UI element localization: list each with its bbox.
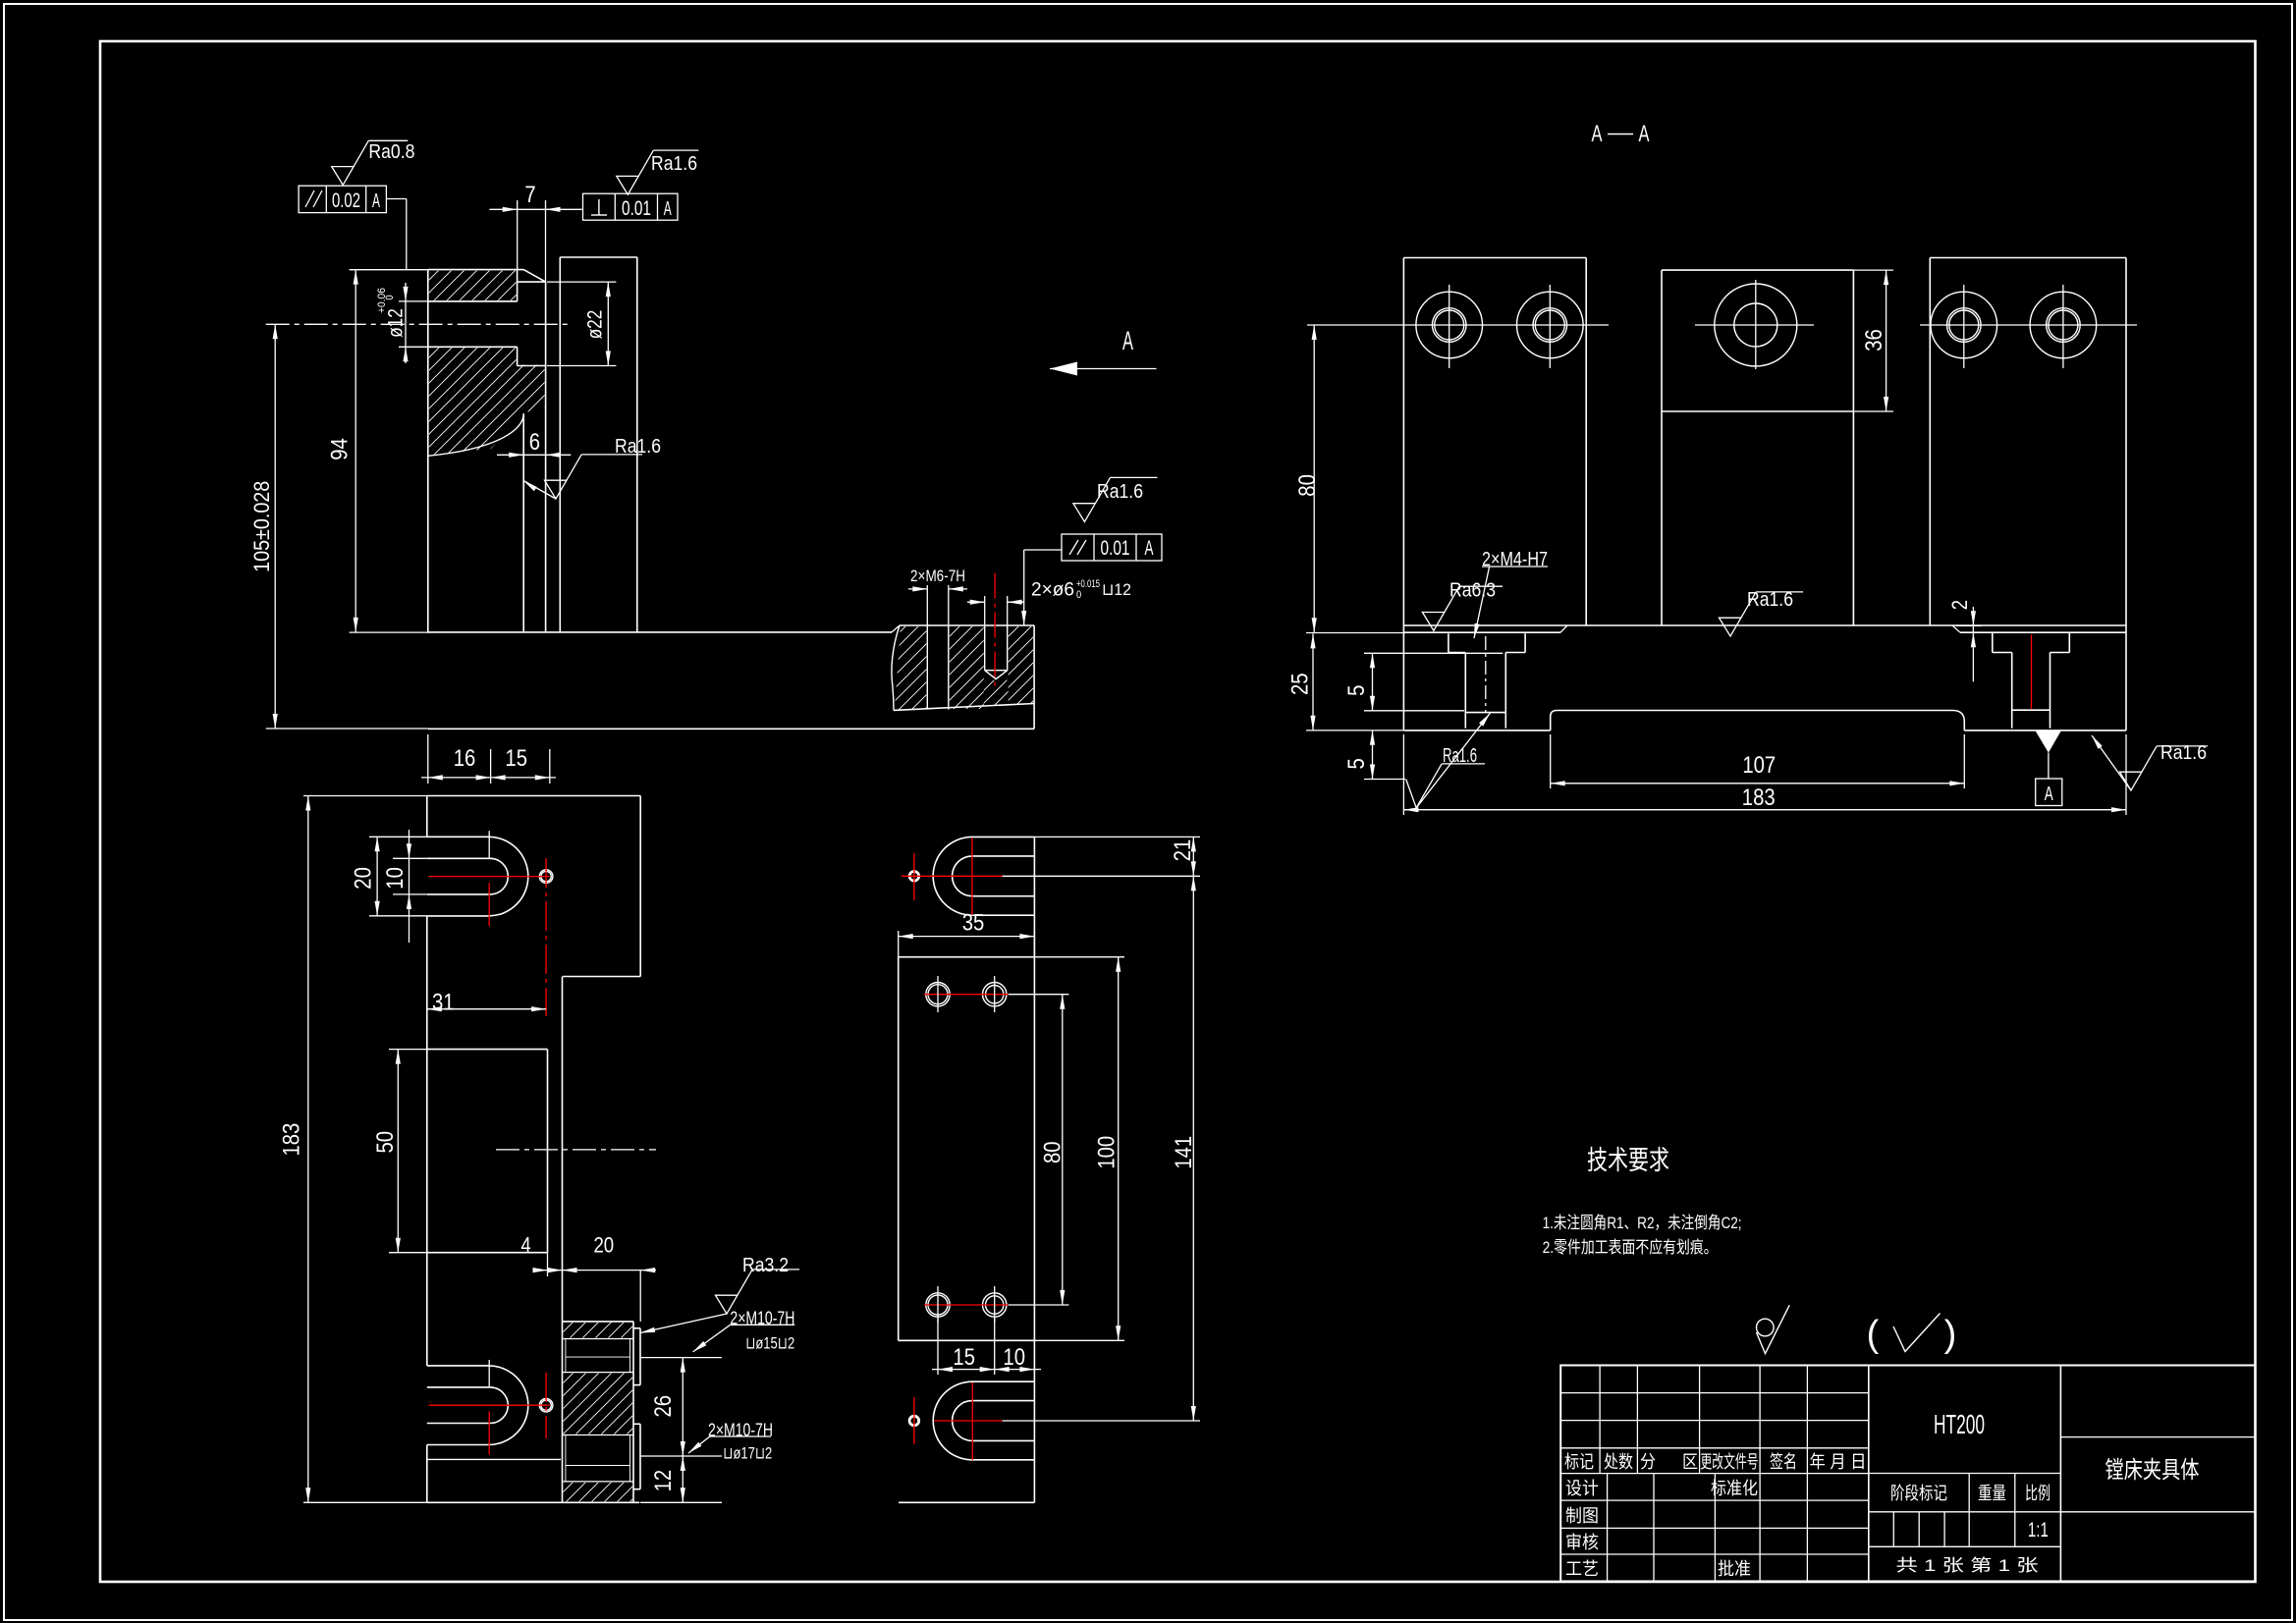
svg-text:80: 80 bbox=[1294, 474, 1321, 497]
svg-text:(: ( bbox=[1867, 1314, 1880, 1355]
svg-text:0.02: 0.02 bbox=[332, 189, 360, 212]
A-A left upright block bbox=[1403, 258, 1586, 730]
dimension 5 upper (A-A) bbox=[1343, 653, 1503, 711]
dimension 4 and 20 (rib) bbox=[520, 1233, 656, 1322]
svg-text:80: 80 bbox=[1040, 1141, 1066, 1163]
phi6 pin hole (section) bbox=[984, 625, 986, 671]
slot lower-left bbox=[427, 1366, 528, 1445]
svg-text:7: 7 bbox=[524, 182, 535, 208]
dimension 6 bbox=[497, 429, 571, 458]
svg-text:Ra1.6: Ra1.6 bbox=[2160, 742, 2207, 764]
svg-text:12: 12 bbox=[650, 1470, 677, 1492]
dimension 12 bbox=[640, 1456, 722, 1502]
svg-text:Ra3.2: Ra3.2 bbox=[742, 1255, 789, 1276]
svg-text:ø22: ø22 bbox=[584, 310, 607, 340]
svg-text:HT200: HT200 bbox=[1934, 1409, 1985, 1439]
svg-text:重量: 重量 bbox=[1978, 1484, 2006, 1503]
svg-text:50: 50 bbox=[372, 1131, 399, 1154]
surface finish Ra6.3 (A-A) bbox=[1422, 613, 1444, 631]
dimension 35 bbox=[899, 910, 1035, 957]
slot upper-left bbox=[427, 837, 528, 916]
A-A base bottom and recess bbox=[1403, 711, 2126, 730]
label 2xM10-7H cb15 bbox=[693, 1309, 795, 1353]
red centerlines slots (side) bbox=[902, 838, 1003, 1460]
svg-text:36: 36 bbox=[1861, 329, 1887, 352]
hatch: upper band bbox=[395, 269, 555, 301]
A-A center block bbox=[1662, 270, 1853, 625]
dimension 105±0.028 bbox=[249, 324, 428, 729]
A-A base pad line bbox=[1403, 624, 2126, 626]
svg-text:Ra1.6: Ra1.6 bbox=[615, 436, 661, 458]
svg-text:批准: 批准 bbox=[1718, 1559, 1751, 1579]
svg-text:区: 区 bbox=[1682, 1452, 1698, 1472]
svg-text:工艺: 工艺 bbox=[1565, 1559, 1599, 1579]
A-A left M4 counterbore bbox=[1449, 633, 1525, 729]
svg-text:镗床夹具体: 镗床夹具体 bbox=[2105, 1457, 2200, 1484]
svg-text:A: A bbox=[664, 198, 672, 220]
svg-text:5: 5 bbox=[1343, 685, 1370, 696]
dimension 141 (side) bbox=[1003, 876, 1200, 1421]
dimension 36 (A-A) bbox=[1853, 270, 1893, 411]
svg-text:0: 0 bbox=[384, 295, 396, 299]
svg-text:A: A bbox=[1145, 537, 1154, 560]
dimension 107 (A-A) bbox=[1551, 734, 1965, 788]
svg-text:21: 21 bbox=[1170, 839, 1196, 862]
svg-text:年 月 日: 年 月 日 bbox=[1810, 1452, 1867, 1472]
svg-text:制图: 制图 bbox=[1565, 1506, 1599, 1526]
dimension 80 (A-A) bbox=[1294, 325, 1405, 633]
pin hole lower bbox=[539, 1398, 553, 1412]
surface finish Ra1.6 above perp frame bbox=[617, 176, 638, 194]
label 2xM10-7H cb17 bbox=[688, 1420, 773, 1462]
dimension 2xphi6 depth12 bbox=[967, 550, 1131, 625]
svg-text:10: 10 bbox=[1003, 1344, 1025, 1371]
slot bottom (side view) bbox=[933, 1381, 1034, 1460]
dimension 100 (side) bbox=[1034, 957, 1124, 1341]
svg-text:Ra1.6: Ra1.6 bbox=[1097, 481, 1143, 503]
dimension 10 (slot) bbox=[382, 830, 427, 943]
svg-text:141: 141 bbox=[1171, 1136, 1197, 1169]
title block grid bbox=[1560, 1366, 2255, 1582]
A-A bolt holes left block bbox=[1416, 292, 1483, 358]
dimension 15 and 10 (side) bbox=[932, 1317, 1041, 1375]
svg-text:94: 94 bbox=[327, 438, 354, 460]
svg-text:⊔12: ⊔12 bbox=[1102, 580, 1131, 599]
title block left labels bbox=[1564, 1452, 1867, 1579]
svg-text:20: 20 bbox=[593, 1233, 614, 1258]
view: top view outline bbox=[427, 796, 640, 1503]
svg-text:A: A bbox=[2045, 784, 2053, 805]
svg-text:2×ø6: 2×ø6 bbox=[1031, 580, 1074, 601]
red centerline right M4 bbox=[2031, 634, 2033, 709]
svg-text:2×M6-7H: 2×M6-7H bbox=[910, 567, 965, 585]
surface finish Ra1.6 right (A-A) bbox=[2092, 735, 2208, 790]
svg-text:技术要求: 技术要求 bbox=[1587, 1146, 1669, 1175]
dimension phi12 bbox=[376, 283, 429, 363]
svg-text:35: 35 bbox=[962, 910, 985, 937]
svg-text:A: A bbox=[1592, 121, 1603, 147]
svg-text:16: 16 bbox=[454, 745, 476, 772]
svg-text:Ra1.6: Ra1.6 bbox=[1747, 589, 1793, 611]
svg-text:6: 6 bbox=[529, 429, 540, 456]
hidden edge line bbox=[427, 1458, 561, 1460]
surface finish Ra1.6 center (A-A) bbox=[1720, 618, 1741, 636]
surface finish Ra0.8 bbox=[332, 167, 354, 186]
svg-text:0: 0 bbox=[1076, 589, 1081, 601]
dimension 20 (slot) bbox=[350, 837, 426, 916]
A-A center hole bbox=[1715, 284, 1797, 366]
svg-text:1:1: 1:1 bbox=[2028, 1519, 2049, 1542]
base plate of front view bbox=[428, 625, 1034, 729]
svg-text:0.01: 0.01 bbox=[1101, 537, 1130, 560]
M6 tapped hole (section) bbox=[926, 625, 928, 710]
svg-text:更改文件号: 更改文件号 bbox=[1701, 1452, 1759, 1472]
A-A bolt holes right block bbox=[1931, 292, 1997, 358]
svg-text:⊔ø15⊔2: ⊔ø15⊔2 bbox=[745, 1334, 794, 1353]
centerline of phi12 hole bbox=[266, 323, 572, 325]
view: side view outline bbox=[899, 837, 1035, 1502]
mid centerline bbox=[496, 1149, 656, 1151]
svg-text:签名: 签名 bbox=[1770, 1452, 1797, 1472]
stage/weight/scale labels bbox=[1890, 1484, 2050, 1503]
dimension 21 (side) bbox=[1034, 837, 1200, 876]
slot centerlines red/white upper bbox=[429, 831, 550, 1016]
svg-text:处数: 处数 bbox=[1604, 1452, 1633, 1472]
svg-text:比例: 比例 bbox=[2025, 1484, 2050, 1503]
svg-text:183: 183 bbox=[1742, 784, 1776, 811]
svg-text:设计: 设计 bbox=[1565, 1479, 1599, 1498]
svg-text:标记: 标记 bbox=[1564, 1452, 1594, 1472]
svg-text:⊔ø17⊔2: ⊔ø17⊔2 bbox=[723, 1444, 772, 1463]
datum A (A-A) bbox=[2036, 731, 2062, 806]
svg-text:107: 107 bbox=[1742, 752, 1776, 779]
svg-text:10: 10 bbox=[382, 867, 409, 890]
dimension 2xM6-7H bbox=[908, 567, 967, 625]
dimension 25 (A-A) bbox=[1287, 633, 1404, 730]
dimension 26 bbox=[640, 1358, 722, 1456]
svg-text:31: 31 bbox=[432, 990, 455, 1016]
dimension 5 lower (A-A) bbox=[1343, 730, 1405, 780]
svg-text:26: 26 bbox=[650, 1395, 677, 1418]
hatch rib bands bbox=[543, 1321, 664, 1339]
svg-text:25: 25 bbox=[1287, 673, 1314, 695]
pin hole bottom (side) bbox=[908, 1416, 919, 1427]
svg-text:审核: 审核 bbox=[1565, 1533, 1599, 1552]
A-A base top surface bbox=[1404, 625, 2126, 632]
surface finish Ra1.6 above frame bbox=[1073, 504, 1095, 522]
hatch: lower section bbox=[317, 347, 657, 457]
red centerline of phi6 hole bbox=[994, 573, 996, 691]
dimension 50 bbox=[372, 1050, 427, 1253]
svg-text:183: 183 bbox=[279, 1123, 305, 1157]
dimension 31 bbox=[427, 990, 546, 1016]
svg-text:Ra1.6: Ra1.6 bbox=[651, 153, 697, 175]
svg-text:105±0.028: 105±0.028 bbox=[249, 481, 274, 572]
dimension 183 (A-A) bbox=[1403, 734, 2126, 815]
dimension phi22 bbox=[547, 282, 616, 365]
perpendicularity frame 0.01 A bbox=[583, 193, 679, 220]
svg-text:2: 2 bbox=[1947, 600, 1972, 610]
boss rectangle bbox=[427, 1050, 548, 1253]
pin hole upper bbox=[539, 870, 553, 884]
svg-text:A: A bbox=[1122, 326, 1133, 355]
dimension 80 (side) bbox=[1009, 995, 1069, 1305]
dimension 94 bbox=[327, 270, 429, 632]
hatch: base right local section bbox=[808, 625, 1021, 711]
svg-text:Ra1.6: Ra1.6 bbox=[1443, 745, 1477, 767]
svg-text:5: 5 bbox=[1343, 758, 1370, 769]
default roughness symbol bbox=[1757, 1305, 1790, 1353]
svg-text:1.未注圆角R1、R2，未注倒角C2;: 1.未注圆角R1、R2，未注倒角C2; bbox=[1543, 1214, 1742, 1232]
svg-text:标准化: 标准化 bbox=[1711, 1479, 1758, 1498]
svg-text:分: 分 bbox=[1640, 1452, 1656, 1472]
dimension 7 bbox=[489, 182, 581, 282]
view: front section view outline bbox=[428, 257, 637, 632]
svg-text:Ra6.3: Ra6.3 bbox=[1449, 580, 1496, 602]
section arrow A bbox=[1050, 326, 1157, 376]
svg-text:共 1 张 第 1 张: 共 1 张 第 1 张 bbox=[1896, 1556, 2039, 1575]
dimension 16 and 15 bbox=[421, 734, 556, 784]
svg-text:15: 15 bbox=[953, 1344, 975, 1371]
surface finish Ra1.6 at rib bbox=[523, 436, 661, 499]
svg-text:阶段标记: 阶段标记 bbox=[1890, 1484, 1947, 1503]
A-A centerlines bbox=[1394, 280, 2137, 369]
svg-text:0.01: 0.01 bbox=[622, 197, 651, 220]
rib local section column bbox=[563, 1322, 641, 1502]
label 2xM4-H7 bbox=[1474, 549, 1548, 638]
svg-text:2.零件加工表面不应有划痕。: 2.零件加工表面不应有划痕。 bbox=[1543, 1238, 1718, 1257]
section title A-A bbox=[1592, 121, 1650, 147]
dimension 2 (A-A) bbox=[1947, 600, 1982, 681]
dimension 183 (top view) bbox=[279, 796, 427, 1503]
svg-text:4: 4 bbox=[520, 1233, 530, 1258]
parallelism frame 0.01 A bbox=[1062, 534, 1162, 561]
A-A right upright block bbox=[1930, 258, 2126, 730]
slot top (side view) bbox=[933, 837, 1034, 915]
surface finish Ra1.6 lower-left (A-A) bbox=[1406, 713, 1491, 808]
svg-text:A: A bbox=[372, 190, 380, 212]
svg-text:20: 20 bbox=[350, 867, 376, 890]
svg-text:Ra0.8: Ra0.8 bbox=[368, 141, 414, 163]
svg-text:100: 100 bbox=[1093, 1136, 1120, 1169]
bracket check symbol bbox=[1867, 1314, 1957, 1356]
svg-text:15: 15 bbox=[505, 745, 527, 772]
slot centerlines red/white lower bbox=[429, 1360, 550, 1455]
svg-text:A: A bbox=[1639, 121, 1650, 147]
surface finish Ra3.2 with leader bbox=[640, 1255, 799, 1333]
parallelism frame 0.02 A bbox=[299, 186, 407, 269]
A-A right M4 counterbore bbox=[1993, 632, 2070, 729]
svg-text:): ) bbox=[1944, 1314, 1957, 1355]
mount holes 4x (side) bbox=[924, 976, 1009, 1323]
pin hole top (side) bbox=[908, 871, 919, 882]
